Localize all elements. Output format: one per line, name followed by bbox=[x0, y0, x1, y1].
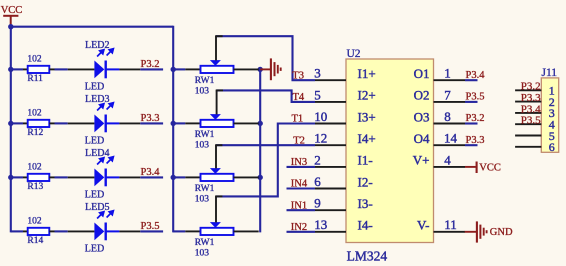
pin R13.2 bbox=[49, 176, 54, 178]
svg-text:R13: R13 bbox=[27, 182, 43, 192]
pin J11.1 bbox=[515, 84, 555, 98]
wire net P3.5 output stub bbox=[465, 101, 478, 103]
wire net P3.5 stub bbox=[140, 230, 163, 232]
pin RW1-2 wiper bbox=[216, 90, 223, 114]
svg-text:103: 103 bbox=[195, 249, 210, 259]
net label P3.3 bbox=[141, 113, 160, 124]
junction pot GND bus row 1 bbox=[258, 67, 263, 72]
net label P3.2 (J11) bbox=[521, 81, 541, 93]
svg-text:103: 103 bbox=[195, 87, 210, 97]
svg-text:P3.5: P3.5 bbox=[521, 115, 541, 127]
wire bus to R12 bbox=[11, 122, 23, 124]
svg-text:8: 8 bbox=[444, 109, 451, 124]
wire pot bus to RW1 row 4 bbox=[173, 230, 185, 232]
junction pot VCC bus row 2 bbox=[171, 121, 176, 126]
wire net IN3 stub bbox=[287, 166, 316, 168]
svg-text:V+: V+ bbox=[413, 153, 430, 168]
svg-text:LED: LED bbox=[85, 244, 104, 255]
pin J11.5 bbox=[515, 129, 555, 143]
pin U2.9 (I3-) bbox=[314, 196, 372, 211]
pin R14.2 bbox=[49, 230, 54, 232]
wire VCC top horizontal bbox=[11, 26, 173, 28]
net label P3.2 (output) bbox=[466, 113, 485, 124]
wire T4 from RW1-2 wiper bbox=[217, 90, 315, 102]
wire net P3.4 output stub bbox=[465, 79, 478, 81]
svg-text:LED: LED bbox=[85, 136, 104, 147]
LED LED4 bbox=[85, 148, 120, 201]
svg-text:O1: O1 bbox=[414, 66, 430, 81]
pin U2.12 (I4+) bbox=[314, 131, 375, 146]
svg-text:RW1: RW1 bbox=[195, 130, 215, 140]
wire pot GND bus vertical bbox=[259, 69, 261, 232]
pin U2.7 (O2) bbox=[414, 87, 465, 102]
wire T3 from RW1-1 wiper bbox=[216, 36, 315, 80]
svg-text:102: 102 bbox=[27, 216, 42, 226]
svg-text:1: 1 bbox=[444, 66, 451, 81]
wire net P3.3 output stub bbox=[465, 144, 478, 146]
pin J11.3 bbox=[515, 106, 555, 120]
wire bus to R11 bbox=[11, 68, 23, 70]
svg-text:I2-: I2- bbox=[358, 174, 373, 189]
svg-text:LED2: LED2 bbox=[85, 40, 109, 51]
wire T1 from RW1-4 wiper bbox=[216, 124, 315, 197]
pin RW1.1 row 2 bbox=[185, 122, 200, 124]
svg-text:LED: LED bbox=[85, 190, 104, 201]
wire net P3.3 stub bbox=[140, 122, 163, 124]
wire VCC left bus vertical bbox=[10, 26, 12, 233]
net label IN4 bbox=[291, 179, 308, 190]
pin R13.1 bbox=[23, 176, 28, 178]
LED LED2 bbox=[85, 40, 120, 93]
svg-text:I4+: I4+ bbox=[358, 131, 376, 146]
junction pot VCC bus row 3 bbox=[171, 175, 176, 180]
pin U2.6 (I2-) bbox=[314, 174, 372, 189]
pin R14.1 bbox=[23, 230, 28, 232]
pin LED3 cathode bbox=[119, 122, 140, 124]
pin U2.3 (I1+) bbox=[314, 66, 375, 81]
svg-text:R14: R14 bbox=[27, 236, 43, 246]
junction pot GND bus row 2 bbox=[258, 121, 263, 126]
wire pot bus to RW1 row 3 bbox=[173, 176, 185, 178]
pin RW1-1 wiper bbox=[215, 36, 223, 60]
svg-text:102: 102 bbox=[27, 108, 42, 118]
svg-text:I1+: I1+ bbox=[358, 66, 376, 81]
svg-text:RW1: RW1 bbox=[195, 184, 215, 194]
svg-text:VCC: VCC bbox=[1, 5, 23, 16]
svg-text:IN4: IN4 bbox=[291, 179, 308, 190]
svg-text:P3.2: P3.2 bbox=[466, 113, 485, 124]
svg-text:O4: O4 bbox=[414, 131, 430, 146]
pin LED3 anode bbox=[68, 122, 95, 124]
resistor R13 bbox=[27, 162, 49, 192]
net label P3.2 bbox=[141, 59, 160, 70]
potentiometer RW1 row 1 bbox=[195, 60, 234, 96]
wire net P3.2 output stub bbox=[465, 122, 478, 124]
pin RW1-4 wiper bbox=[215, 196, 222, 222]
svg-text:IN2: IN2 bbox=[291, 222, 307, 233]
resistor R14 bbox=[27, 216, 49, 246]
svg-text:IN3: IN3 bbox=[291, 157, 307, 168]
wire net IN2 stub bbox=[287, 231, 316, 233]
svg-text:R11: R11 bbox=[27, 74, 43, 84]
svg-text:LED3: LED3 bbox=[85, 94, 109, 105]
svg-text:VCC: VCC bbox=[479, 162, 501, 173]
svg-text:P3.3: P3.3 bbox=[141, 113, 160, 124]
wire net IN1 stub bbox=[287, 209, 316, 211]
wire R14 to LED5 bbox=[55, 230, 68, 232]
wire R11 to LED2 bbox=[55, 68, 68, 70]
net label P3.4 bbox=[141, 167, 161, 178]
wire net IN4 stub bbox=[287, 187, 316, 189]
svg-text:11: 11 bbox=[444, 217, 457, 232]
svg-text:LED: LED bbox=[85, 82, 104, 93]
power port VCC (top-left) bbox=[1, 5, 23, 27]
svg-text:J11: J11 bbox=[542, 67, 558, 79]
wire pot bus to RW1 row 2 bbox=[173, 122, 185, 124]
svg-text:T4: T4 bbox=[293, 92, 305, 103]
net label P3.3 (J11) bbox=[521, 92, 541, 104]
pin U2.10 (I3+) bbox=[314, 109, 375, 124]
pin U2.5 (I2+) bbox=[314, 87, 375, 102]
svg-text:P3.3: P3.3 bbox=[521, 92, 541, 104]
pin U2.8 (O3) bbox=[414, 109, 465, 124]
pin R12.2 bbox=[49, 122, 54, 124]
potentiometer RW1 row 3 bbox=[195, 168, 234, 204]
svg-text:102: 102 bbox=[27, 162, 42, 172]
net label IN1 bbox=[291, 200, 307, 211]
svg-text:6: 6 bbox=[314, 174, 321, 189]
resistor R12 bbox=[27, 108, 49, 138]
net label T2 bbox=[293, 135, 305, 146]
pin U2.13 (I4-) bbox=[314, 217, 372, 232]
pin U2.4 (V+) bbox=[413, 152, 465, 167]
svg-text:13: 13 bbox=[314, 217, 327, 232]
pin U2.2 (I1-) bbox=[314, 152, 372, 167]
svg-text:P3.2: P3.2 bbox=[141, 59, 160, 70]
net label T4 bbox=[293, 92, 305, 103]
svg-text:10: 10 bbox=[314, 109, 327, 124]
svg-text:9: 9 bbox=[314, 196, 321, 211]
connector J11 body bbox=[541, 67, 558, 152]
pin LED5 anode bbox=[68, 230, 95, 232]
svg-text:LED5: LED5 bbox=[85, 202, 109, 213]
pin RW1.1 row 4 bbox=[185, 230, 200, 232]
net label P3.4 (J11) bbox=[521, 103, 541, 115]
svg-text:P3.5: P3.5 bbox=[141, 221, 160, 232]
svg-text:V-: V- bbox=[417, 218, 430, 233]
svg-text:T3: T3 bbox=[292, 70, 304, 81]
pin RW1.3 row 3 bbox=[234, 176, 259, 178]
op-amp U2 body bbox=[346, 48, 434, 263]
net label P3.5 (output) bbox=[466, 92, 485, 103]
net label IN3 bbox=[291, 157, 307, 168]
svg-text:P3.3: P3.3 bbox=[466, 135, 485, 146]
junction left bus row 1 bbox=[8, 67, 13, 72]
LED LED5 bbox=[85, 202, 120, 255]
net label P3.5 (J11) bbox=[521, 115, 541, 127]
net label IN2 bbox=[291, 222, 307, 233]
pin U2.14 (O4) bbox=[414, 131, 465, 146]
pin LED2 anode bbox=[68, 68, 95, 70]
ground earth symbol at pot bus bbox=[260, 58, 281, 80]
wire net P3.4 stub bbox=[140, 176, 163, 178]
svg-text:I3-: I3- bbox=[358, 196, 373, 211]
svg-text:P3.4: P3.4 bbox=[466, 70, 486, 81]
svg-text:O2: O2 bbox=[414, 88, 430, 103]
svg-text:103: 103 bbox=[195, 195, 210, 205]
net label T1 bbox=[292, 114, 304, 125]
pin RW1.3 row 4 bbox=[234, 230, 259, 232]
svg-text:I3+: I3+ bbox=[358, 109, 376, 124]
wire pot bus to RW1 row 1 bbox=[173, 68, 185, 70]
junction pot GND bus row 3 bbox=[258, 175, 263, 180]
pin U2.1 (O1) bbox=[414, 66, 465, 81]
svg-text:12: 12 bbox=[314, 131, 327, 146]
svg-text:T2: T2 bbox=[293, 135, 305, 146]
pin J11.4 bbox=[515, 118, 555, 132]
svg-text:102: 102 bbox=[27, 54, 42, 64]
svg-text:6: 6 bbox=[549, 140, 555, 154]
pin LED4 cathode bbox=[119, 176, 140, 178]
svg-text:5: 5 bbox=[314, 87, 321, 102]
wire net P3.2 stub bbox=[140, 68, 163, 70]
wire pot VCC bus vertical bbox=[172, 26, 174, 233]
svg-text:2: 2 bbox=[314, 152, 321, 167]
svg-text:I2+: I2+ bbox=[358, 88, 376, 103]
svg-text:4: 4 bbox=[444, 152, 451, 167]
pin RW1.1 row 3 bbox=[185, 176, 200, 178]
svg-text:GND: GND bbox=[490, 227, 513, 238]
pin R11.2 bbox=[49, 68, 54, 70]
svg-text:I1-: I1- bbox=[358, 153, 373, 168]
svg-text:P3.4: P3.4 bbox=[141, 167, 161, 178]
svg-text:RW1: RW1 bbox=[195, 76, 215, 86]
junction pot VCC bus row 1 bbox=[171, 67, 176, 72]
net label T3 bbox=[292, 70, 304, 81]
LED LED3 bbox=[85, 94, 120, 147]
svg-text:LM324: LM324 bbox=[347, 248, 388, 263]
svg-text:P3.5: P3.5 bbox=[466, 92, 485, 103]
svg-text:103: 103 bbox=[195, 141, 210, 151]
wire T2 from RW1-3 wiper bbox=[216, 144, 315, 146]
potentiometer RW1 row 4 bbox=[195, 222, 234, 258]
pin LED2 cathode bbox=[119, 68, 140, 70]
pin J11.6 bbox=[515, 140, 555, 154]
pin U2.11 (V-) bbox=[417, 217, 465, 232]
svg-text:LED4: LED4 bbox=[85, 148, 109, 159]
svg-text:O3: O3 bbox=[414, 109, 430, 124]
pin RW1.3 row 2 bbox=[234, 122, 259, 124]
ground GND at V- bbox=[465, 221, 513, 242]
junction left bus row 3 bbox=[8, 175, 13, 180]
pin LED5 cathode bbox=[119, 230, 140, 232]
svg-text:P3.4: P3.4 bbox=[521, 103, 541, 115]
wire R13 to LED4 bbox=[55, 176, 68, 178]
svg-text:14: 14 bbox=[444, 131, 458, 146]
pin J11.2 bbox=[515, 95, 555, 109]
pin RW1.3 row 1 bbox=[234, 68, 259, 70]
net label P3.4 (output) bbox=[466, 70, 486, 81]
svg-text:I4-: I4- bbox=[358, 218, 373, 233]
net label P3.3 (output) bbox=[466, 135, 485, 146]
potentiometer RW1 row 2 bbox=[195, 114, 234, 150]
wire bus to R13 bbox=[11, 176, 23, 178]
net label P3.5 bbox=[141, 221, 160, 232]
svg-text:7: 7 bbox=[444, 87, 451, 102]
node VCC corner junction bbox=[8, 24, 13, 29]
junction left bus row 2 bbox=[8, 121, 13, 126]
resistor R11 bbox=[27, 54, 49, 84]
wire bus to R14 bbox=[11, 230, 23, 232]
svg-text:P3.2: P3.2 bbox=[521, 81, 541, 93]
pin LED4 anode bbox=[68, 176, 95, 178]
svg-text:RW1: RW1 bbox=[195, 238, 215, 248]
pin R12.1 bbox=[23, 122, 28, 124]
wire R12 to LED3 bbox=[55, 122, 68, 124]
svg-text:T1: T1 bbox=[292, 114, 304, 125]
pin RW1-3 wiper bbox=[215, 145, 222, 168]
pin RW1.1 row 1 bbox=[185, 68, 200, 70]
svg-text:R12: R12 bbox=[27, 128, 43, 138]
svg-text:3: 3 bbox=[314, 66, 321, 81]
pin R11.1 bbox=[23, 68, 28, 70]
svg-text:IN1: IN1 bbox=[291, 200, 307, 211]
svg-text:U2: U2 bbox=[347, 48, 361, 60]
power port VCC at V+ bbox=[465, 162, 501, 174]
